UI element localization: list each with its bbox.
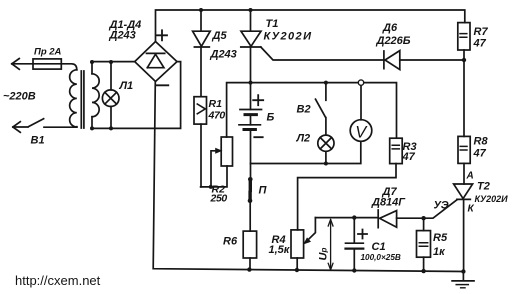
- svg-text:Д6: Д6: [382, 22, 398, 34]
- svg-text:V: V: [355, 124, 368, 142]
- svg-text:47: 47: [473, 148, 487, 160]
- svg-text:Л2: Л2: [296, 133, 311, 145]
- svg-text:П: П: [259, 185, 268, 197]
- svg-text:Д243: Д243: [109, 30, 136, 42]
- svg-text:Т2: Т2: [477, 181, 490, 193]
- svg-text:470: 470: [208, 110, 226, 122]
- svg-text:Д226Б: Д226Б: [376, 35, 411, 47]
- svg-text:В2: В2: [297, 104, 311, 116]
- svg-text:Пр 2А: Пр 2А: [34, 46, 62, 57]
- svg-text:http://cxem.net: http://cxem.net: [15, 273, 101, 288]
- svg-text:47: 47: [402, 151, 416, 163]
- svg-text:R6: R6: [223, 236, 238, 248]
- svg-text:Д243: Д243: [210, 49, 237, 61]
- svg-text:Т1: Т1: [266, 18, 279, 30]
- svg-text:КУ202И: КУ202И: [264, 31, 313, 43]
- svg-text:Б: Б: [267, 112, 275, 124]
- svg-text:Л1: Л1: [119, 80, 134, 92]
- svg-text:R1: R1: [209, 98, 223, 110]
- svg-text:К: К: [468, 204, 475, 215]
- svg-text:250: 250: [210, 193, 228, 205]
- svg-text:С1: С1: [372, 241, 386, 253]
- svg-text:УЭ: УЭ: [434, 200, 449, 212]
- svg-text:КУ202И: КУ202И: [475, 194, 509, 204]
- svg-text:~220В: ~220В: [3, 91, 36, 103]
- svg-text:100,0×25В: 100,0×25В: [361, 253, 401, 262]
- svg-text:Д814Г: Д814Г: [371, 197, 406, 209]
- svg-text:А: А: [466, 171, 474, 182]
- svg-text:1к: 1к: [433, 246, 446, 258]
- svg-text:Д5: Д5: [212, 30, 228, 42]
- svg-text:R5: R5: [433, 232, 448, 244]
- svg-text:В1: В1: [31, 135, 45, 147]
- svg-text:47: 47: [473, 38, 487, 50]
- svg-text:1,5к: 1,5к: [269, 244, 291, 256]
- svg-text:R7: R7: [474, 26, 489, 38]
- svg-text:R8: R8: [474, 136, 489, 148]
- svg-text:Uр: Uр: [318, 248, 330, 261]
